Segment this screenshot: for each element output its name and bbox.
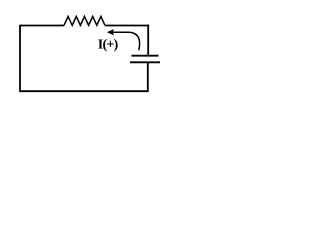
wire top right segment: [105, 25, 149, 27]
resistor: [64, 16, 105, 25]
capacitor top plate: [132, 55, 159, 57]
svg-text:I(+): I(+): [98, 38, 119, 53]
wire top left segment: [19, 25, 64, 27]
wire bottom: [19, 90, 149, 92]
wire left vertical: [19, 26, 21, 92]
wire right upper vertical: [147, 25, 149, 55]
current arrowhead: [107, 29, 114, 35]
wire right lower vertical: [147, 62, 149, 91]
capacitor bottom plate: [130, 61, 160, 63]
current arrow: [111, 32, 140, 50]
